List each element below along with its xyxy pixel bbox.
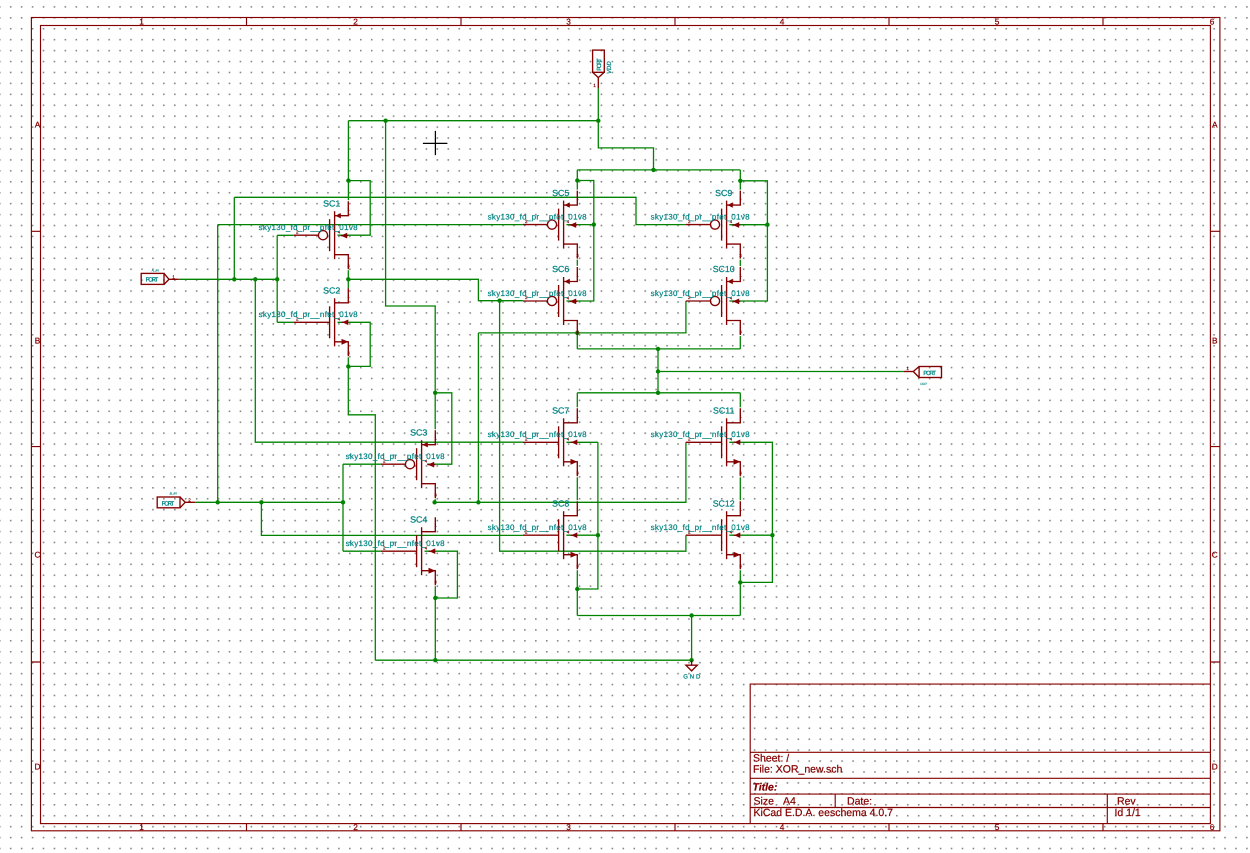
svg-text:C: C (1212, 550, 1218, 560)
svg-text:4: 4 (780, 822, 785, 832)
wire SC2 to gnd drop (348, 366, 375, 660)
svg-text:6: 6 (1210, 17, 1215, 27)
wire SC5 drain stub (576, 170, 578, 190)
svg-text:SC6: SC6 (552, 264, 569, 274)
svg-text:3: 3 (566, 822, 571, 832)
junction J4 at 654,170 (651, 168, 655, 172)
svg-text:sky130_fd_pr__nfet_01v8: sky130_fd_pr__nfet_01v8 (651, 430, 751, 439)
wire SC7 SC8 bulk rail (577, 442, 598, 589)
svg-text:KiCad E.D.A. eeschema 4.0.7: KiCad E.D.A. eeschema 4.0.7 (754, 807, 894, 819)
svg-text:2: 2 (188, 498, 191, 503)
wire SC3 bulk loop (427, 393, 452, 464)
wire SC4 gate stub (343, 550, 381, 552)
wire B riser to SC5 gate (217, 225, 219, 503)
wire SC9 SC10 link (739, 260, 741, 266)
wire SC11 SC12 link (739, 477, 741, 500)
svg-text:SC12: SC12 (713, 498, 735, 508)
transistor SC3 sky130_fd_pr__pfet_01v8 (346, 427, 446, 498)
svg-text:SC4: SC4 (410, 514, 427, 524)
svg-text:sky130_fd_pr__nfet_01v8: sky130_fd_pr__nfet_01v8 (259, 310, 359, 319)
title block row line above KiCad (750, 807, 1210, 809)
wire SC3 source stub (434, 499, 436, 502)
junction J18 at 658,372 (656, 369, 660, 373)
wire Abar to SC6 gate (348, 279, 523, 300)
junction J21 at 261,502 (259, 500, 263, 504)
svg-text:File: XOR_new.sch: File: XOR_new.sch (753, 764, 842, 776)
svg-text:SC1: SC1 (323, 198, 340, 208)
port PORT3 output OUT (904, 366, 942, 386)
junction J12 at 348,279 (346, 277, 350, 281)
wire input A (179, 278, 277, 280)
svg-text:A: A (1212, 120, 1218, 130)
junction J25 at 598,535 (596, 533, 600, 537)
junction J15 at 348,366 (346, 364, 350, 368)
transistor SC2 sky130_fd_pr__nfet_01v8 (259, 286, 359, 357)
wire VDD top rail right (577, 169, 740, 171)
transistor SC8 sky130_fd_pr__nfet_01v8 (488, 498, 588, 569)
svg-text:5: 5 (995, 17, 1000, 27)
wire SC7 bulk (566, 441, 598, 443)
junction J17 at 658,349 (656, 347, 660, 351)
svg-text:sky130_fd_pr__nfet_01v8: sky130_fd_pr__nfet_01v8 (651, 523, 751, 532)
svg-text:GND: GND (683, 674, 701, 681)
wire input B (195, 501, 343, 503)
wire B to SC11 gate (478, 442, 686, 502)
svg-text:SC10: SC10 (713, 264, 735, 274)
svg-text:PORT: PORT (596, 58, 603, 71)
title block row line above Sheet (750, 751, 1210, 753)
wire SC2 bulk loop (338, 322, 371, 366)
wire B to SC8 gate (261, 502, 523, 535)
svg-text:SC9: SC9 (715, 188, 732, 198)
svg-text:2: 2 (353, 822, 358, 832)
svg-text:A4: A4 (783, 796, 796, 808)
svg-text:Size: Size (754, 796, 775, 808)
border column ticks top (247, 18, 1104, 26)
svg-text:SC7: SC7 (552, 406, 569, 416)
svg-text:sky130_fd_pr__nfet_01v8: sky130_fd_pr__nfet_01v8 (488, 430, 588, 439)
svg-text:D: D (35, 761, 41, 771)
wire SC10 source stub (739, 336, 741, 349)
transistor SC10 sky130_fd_pr__pfet_01v8 (651, 264, 751, 335)
wire A to SC7 gate (255, 279, 523, 442)
svg-text:sky130_fd_pr__pfet_01v8: sky130_fd_pr__pfet_01v8 (651, 212, 751, 221)
wire SC3 gate stub (343, 463, 381, 465)
svg-text:SC11: SC11 (713, 406, 734, 416)
junction J7 at 594,225 (592, 222, 596, 226)
wire SC12 bulk (729, 534, 772, 536)
junction J23 at 435,502 (432, 500, 436, 504)
svg-text:5: 5 (995, 822, 1000, 832)
wire SC12 source drop (739, 570, 741, 615)
wire SC4 source drop (434, 586, 436, 660)
transistor SC5 sky130_fd_pr__pfet_01v8 (488, 188, 588, 259)
junction J28 at 740,582 (738, 580, 742, 584)
wire SC1 bulk loop (338, 181, 371, 236)
title block divider Rev/Id (1106, 794, 1108, 824)
junction J19 at 658,393 (656, 391, 660, 395)
editor cursor crosshair (423, 131, 448, 155)
transistor SC7 sky130_fd_pr__nfet_01v8 (488, 406, 588, 477)
wire output lower rail (577, 392, 740, 394)
wire VDD to right pfets (598, 121, 653, 170)
port PORT4 VDD (593, 50, 613, 88)
wire output node riser (657, 349, 659, 393)
svg-text:A_IN: A_IN (151, 269, 159, 273)
svg-text:Date:: Date: (847, 796, 872, 808)
transistor SC11 sky130_fd_pr__nfet_01v8 (651, 406, 751, 477)
svg-text:1: 1 (139, 17, 144, 27)
junction J31 at 435,660 (433, 658, 437, 662)
wire SC9 drain stub (739, 170, 741, 190)
wire output to port (658, 371, 904, 373)
wire SC5 SC6 bulk rail (566, 181, 593, 302)
junction J13 at 500,301 (497, 299, 501, 303)
wire VDD port drop (597, 88, 599, 120)
wire B riser SC3 SC4 gates (342, 464, 344, 551)
junction J9 at 234,279 (232, 277, 236, 281)
svg-text:6: 6 (1210, 822, 1215, 832)
svg-text:SC5: SC5 (552, 188, 569, 198)
wire Abar to SC12 gate (500, 301, 686, 552)
svg-text:1: 1 (139, 822, 144, 832)
wire SC5 bulk (566, 224, 593, 226)
svg-text:A: A (35, 120, 41, 130)
title block frame (750, 684, 1210, 824)
svg-text:Id 1/1: Id 1/1 (1115, 807, 1141, 819)
svg-text:2: 2 (353, 17, 358, 27)
junction J30 at 692,616 (689, 613, 693, 617)
svg-text:1: 1 (906, 366, 909, 371)
svg-text:1: 1 (593, 83, 596, 88)
wire mid rail drop to B line (477, 333, 479, 502)
wire SC7 SC8 link (576, 477, 578, 500)
junction J27 at 577,589 (575, 587, 579, 591)
wire SC8 source drop (576, 570, 578, 615)
svg-text:4: 4 (780, 17, 785, 27)
wire SC9 SC10 bulk rail (729, 181, 767, 301)
junction J8 at 767,225 (765, 223, 769, 227)
transistor SC12 sky130_fd_pr__nfet_01v8 (651, 498, 751, 569)
junction J2 at 598,121 (596, 119, 600, 123)
wire VDD rail (348, 120, 598, 122)
svg-text:B: B (35, 336, 41, 346)
svg-text:PORT: PORT (923, 370, 936, 377)
border row ticks left (31, 231, 40, 662)
junction J11 at 277,279 (275, 277, 279, 281)
title block row line above Size (750, 793, 1210, 795)
svg-text:SC8: SC8 (552, 498, 569, 508)
junction J10 at 255,279 (253, 277, 257, 281)
wire SC5 SC6 link (576, 260, 578, 266)
transistor SC4 sky130_fd_pr__nfet_01v8 (346, 514, 446, 585)
title block row line above Title (750, 777, 1210, 779)
svg-text:sky130_fd_pr__pfet_01v8: sky130_fd_pr__pfet_01v8 (651, 289, 751, 298)
transistor SC1 sky130_fd_pr__pfet_01v8 (259, 198, 359, 269)
wire SC11 SC12 bulk rail (729, 442, 772, 582)
svg-text:Rev: Rev (1117, 796, 1136, 808)
junction J24 at 478,502 (476, 500, 480, 504)
wire SC1 SC2 link (347, 270, 349, 288)
wire A to SC9 gate (234, 197, 686, 224)
svg-text:B_IN: B_IN (170, 492, 177, 496)
wire SC1 gate stub (277, 234, 294, 236)
wire gnd mid rail (577, 615, 740, 617)
svg-text:C: C (35, 550, 41, 560)
transistor SC6 sky130_fd_pr__pfet_01v8 (488, 264, 588, 335)
wire output upper rail (577, 348, 740, 350)
svg-text:sky130_fd_pr__pfet_01v8: sky130_fd_pr__pfet_01v8 (346, 452, 446, 461)
wire node A riser (233, 197, 235, 279)
svg-text:B: B (1212, 336, 1218, 346)
svg-text:sky130_fd_pr__pfet_01v8: sky130_fd_pr__pfet_01v8 (488, 289, 588, 298)
junction J20 at 218,502 (216, 500, 220, 504)
junction J1 at 386,121 (383, 119, 387, 123)
wire SC11 drain stub (739, 393, 741, 408)
junction J22 at 343,502 (341, 500, 345, 504)
junction J29 at 435,598 (433, 596, 437, 600)
wire A to SC1 SC2 gates riser (276, 235, 278, 322)
wire SC6 source stub (576, 333, 578, 349)
junction J16 at 435,393 (433, 391, 437, 395)
wire SC7 drain stub (576, 393, 578, 408)
wire VDD to SC1 drain (347, 121, 349, 201)
svg-text:D: D (1212, 761, 1218, 771)
svg-text:sky130_fd_pr__nfet_01v8: sky130_fd_pr__nfet_01v8 (488, 523, 588, 532)
title block divider Size/Date (834, 794, 836, 807)
svg-text:sky130_fd_pr__nfet_01v8: sky130_fd_pr__nfet_01v8 (346, 539, 446, 548)
wire gnd stub (691, 616, 693, 661)
svg-text:1: 1 (172, 275, 175, 280)
junction J6 at 740,181 (738, 179, 742, 183)
svg-text:sky130_fd_pr__pfet_01v8: sky130_fd_pr__pfet_01v8 (259, 223, 359, 232)
svg-text:PORT: PORT (146, 277, 159, 284)
junction J32 at 692,660 (689, 658, 693, 662)
svg-text:3: 3 (566, 17, 571, 27)
wire SC2 gate stub (277, 321, 294, 323)
svg-text:OUT: OUT (920, 382, 927, 386)
ground GND symbol (683, 660, 701, 680)
wire VDD left drop to SC3 (386, 121, 436, 430)
svg-text:Title:: Title: (753, 782, 778, 794)
svg-text:SC3: SC3 (410, 427, 427, 437)
svg-text:sky130_fd_pr__pfet_01v8: sky130_fd_pr__pfet_01v8 (488, 212, 588, 221)
svg-text:VDD: VDD (606, 61, 613, 74)
wire SC4 bulk loop (425, 551, 458, 598)
wire SC5 gate feed (218, 224, 523, 226)
wire gnd rail (375, 659, 691, 661)
port PORT2 input B_IN (157, 492, 195, 508)
wire SC2 source stub (347, 357, 349, 366)
port PORT1 input A_IN (141, 269, 179, 285)
border column ticks bottom (247, 824, 1104, 831)
junction J26 at 772,535 (770, 533, 774, 537)
wire SC8 bulk (566, 534, 598, 536)
wire SC9 bulk (729, 224, 767, 226)
wire mid rail to SC10 gate (478, 301, 686, 333)
junction J3 at 348,181 (346, 178, 350, 182)
junction J14 at 577,333 (575, 331, 579, 335)
junction J5 at 577,180 (575, 178, 579, 182)
svg-text:PORT: PORT (162, 500, 175, 507)
svg-text:SC2: SC2 (323, 286, 340, 296)
border row ticks right (1210, 231, 1220, 662)
transistor SC9 sky130_fd_pr__pfet_01v8 (651, 188, 751, 259)
wire SC3 source link (435, 501, 479, 503)
